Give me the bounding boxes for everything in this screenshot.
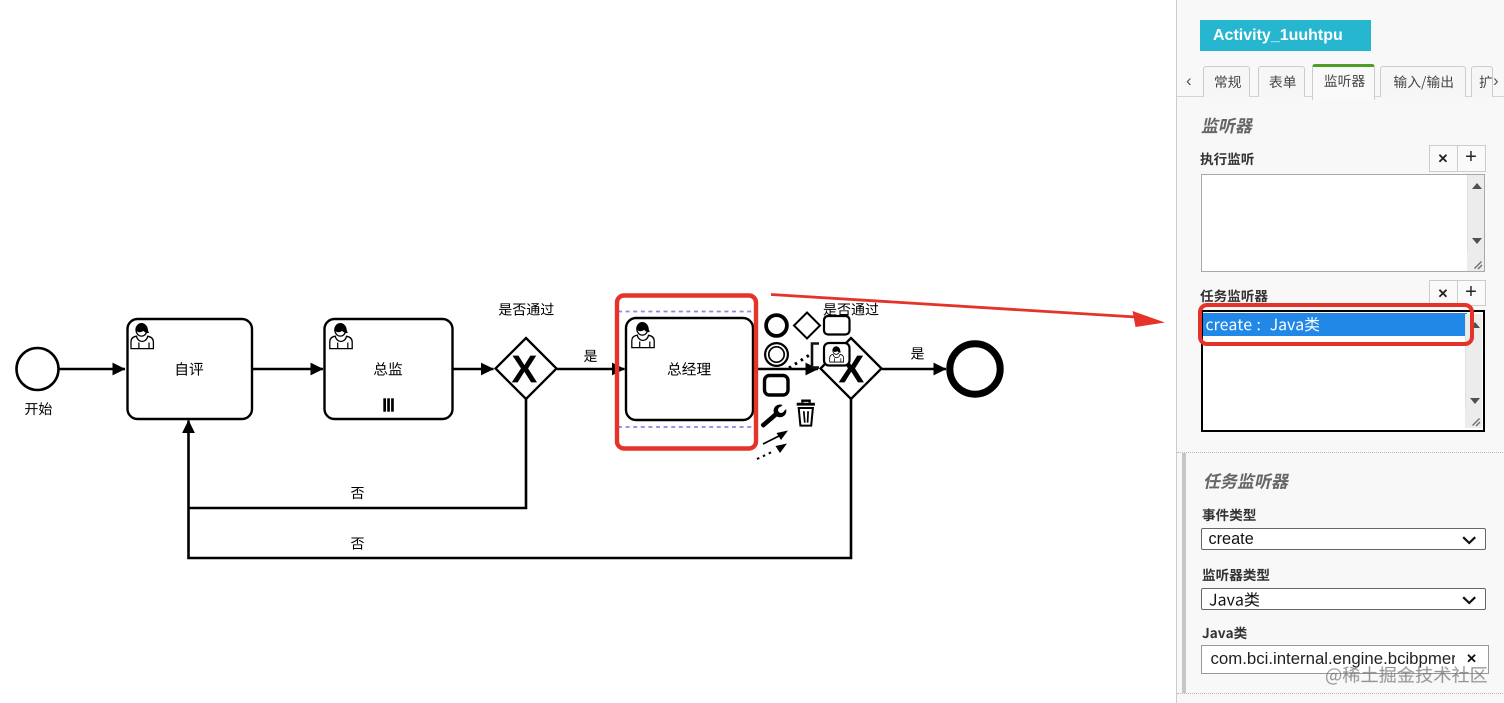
- parallel MI marker: [383, 398, 394, 411]
- user icon task2: [330, 324, 352, 349]
- user icon task3: [632, 323, 654, 348]
- blue dashed lane line bottom: [618, 426, 755, 428]
- wire flow gateway1->总经理 (是): [557, 368, 625, 371]
- wire flow 自评->总监: [252, 368, 323, 371]
- context pad: append gateway icon: [794, 313, 820, 339]
- popup user task mini icon: [824, 343, 850, 366]
- red annotation arrow to panel: [771, 295, 1136, 318]
- label 是 G2: [911, 347, 924, 359]
- task 总经理: [626, 318, 753, 420]
- gateway G2 X marker: [839, 356, 864, 383]
- wire flow start->自评: [60, 368, 126, 371]
- context pad: connect arrow dotted: [757, 444, 787, 460]
- red highlight box around create item: [1198, 303, 1474, 346]
- label 是否通过 G1: [499, 303, 554, 316]
- context pad: connect arrow solid: [763, 431, 788, 445]
- label 是 G1: [584, 350, 597, 362]
- gateway G1 是否通过: [496, 338, 557, 399]
- start event circle: [17, 348, 59, 390]
- end event circle: [950, 344, 1000, 394]
- wire return flow gateway2->自评 (否): [189, 399, 852, 558]
- popup bracket [: [812, 344, 819, 368]
- wire flow 总经理->gateway2: [757, 368, 818, 371]
- context pad: wrench icon: [758, 399, 792, 431]
- user icon task1: [131, 324, 153, 349]
- gateway G2 是否通过: [821, 338, 882, 399]
- wire flow 总监->gateway1: [453, 368, 494, 371]
- context pad: subprocess icon: [765, 376, 789, 396]
- red selection rectangle around 总经理: [617, 296, 756, 449]
- task 总监: [325, 319, 453, 419]
- label 是否通过 G2: [823, 303, 878, 316]
- dotted connect preview line: [789, 354, 811, 368]
- context pad: append task icon: [824, 316, 850, 335]
- blue dashed lane line top: [618, 311, 755, 313]
- label 否 G2: [351, 538, 364, 550]
- context pad: intermediate event icon: [765, 343, 788, 366]
- task 自评: [128, 319, 253, 419]
- label 否 G1: [351, 487, 364, 499]
- wire flow gateway2->end (是): [882, 368, 946, 371]
- context pad: append end event icon: [766, 315, 787, 336]
- context pad: trash icon: [797, 401, 815, 426]
- gateway G1 X marker: [512, 356, 537, 383]
- watermark: [1323, 662, 1495, 688]
- wire return flow gateway1->自评 (否): [189, 399, 527, 508]
- node label 开始: [25, 402, 52, 415]
